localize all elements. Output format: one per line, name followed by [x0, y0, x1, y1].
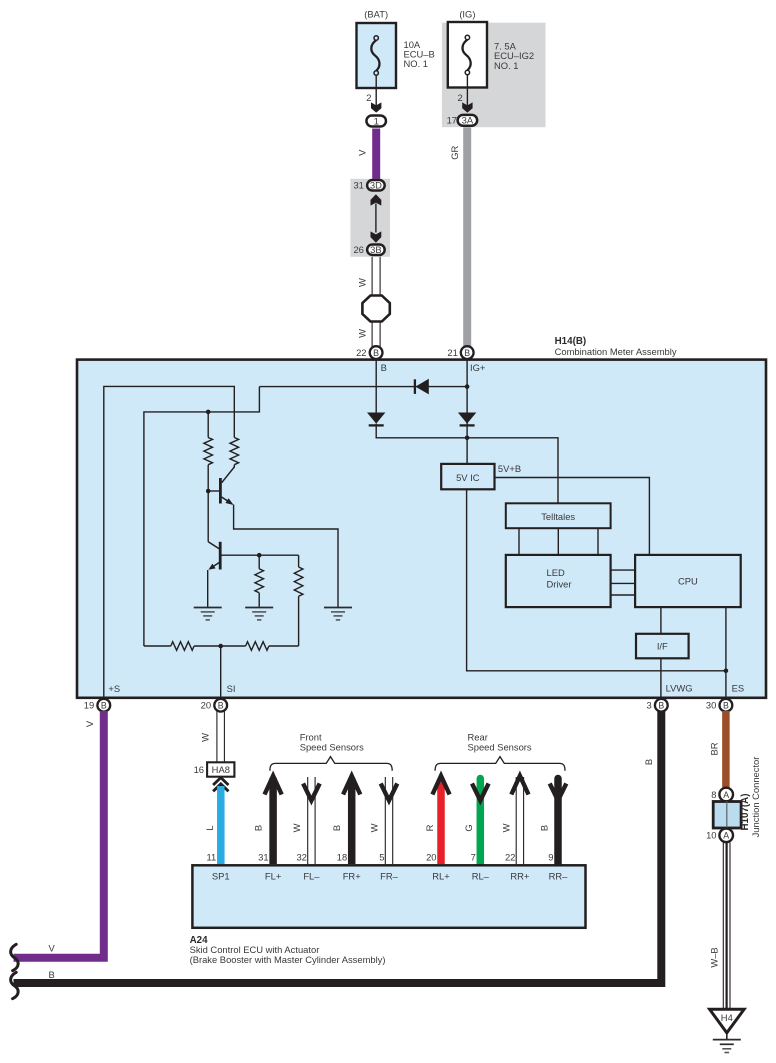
wire fuse ECU-B to connector 1	[375, 75, 377, 112]
svg-text:11: 11	[206, 851, 216, 862]
I/F box	[636, 634, 689, 659]
junction node ES	[724, 669, 729, 674]
gray panel behind IG fuse	[442, 23, 546, 128]
pin 16 label	[194, 764, 204, 775]
wire 5V+B to CPU	[495, 478, 650, 555]
wire L light blue (to SP1)	[217, 786, 225, 864]
svg-text:26: 26	[353, 244, 363, 255]
svg-text:RL–: RL–	[472, 871, 490, 882]
svg-text:A: A	[723, 790, 729, 800]
svg-text:31: 31	[258, 851, 268, 862]
wire SI column	[220, 646, 222, 697]
svg-text:1: 1	[374, 115, 379, 126]
node +S label	[108, 683, 120, 694]
skid control ECU box A24	[192, 865, 585, 928]
svg-text:Telltales: Telltales	[541, 511, 575, 522]
svg-text:8: 8	[711, 789, 716, 800]
wires LED Driver to CPU	[611, 570, 636, 595]
svg-text:5: 5	[379, 851, 384, 862]
resistor R3	[255, 555, 264, 607]
svg-text:FL–: FL–	[303, 871, 320, 882]
wire W FL- with down arrow	[303, 777, 320, 864]
label BR	[708, 742, 719, 755]
svg-text:L: L	[204, 825, 215, 830]
label B (horizontal run)	[48, 969, 54, 980]
svg-text:FR+: FR+	[343, 871, 361, 882]
svg-text:16: 16	[194, 764, 204, 775]
connector 3A oval	[458, 115, 478, 126]
svg-text:V: V	[84, 720, 95, 727]
rear speed sensors label	[468, 731, 532, 752]
CPU box	[635, 555, 741, 607]
svg-text:7: 7	[471, 851, 476, 862]
arrow down to 3B	[371, 231, 382, 242]
wire 5V IC to ES junction	[467, 489, 726, 670]
svg-text:NO. 1: NO. 1	[404, 58, 429, 69]
resistor R5 (horizontal)	[144, 642, 246, 651]
svg-text:17: 17	[447, 115, 457, 126]
svg-text:H4: H4	[721, 1012, 733, 1023]
wire B black to left edge	[14, 711, 662, 983]
wire B FL+ with up arrow	[265, 776, 282, 864]
svg-text:SI: SI	[227, 683, 236, 694]
svg-text:B: B	[658, 701, 664, 711]
svg-text:Speed Sensors: Speed Sensors	[468, 742, 532, 753]
svg-text:B: B	[48, 969, 54, 980]
svg-text:W: W	[369, 823, 380, 832]
svg-text:18: 18	[337, 851, 347, 862]
wire Q1 base to Q2 collector	[207, 491, 209, 542]
wire B column	[375, 359, 377, 414]
pin 3 B	[655, 699, 668, 712]
resistor R1	[204, 412, 213, 491]
wire B RR- with down arrow	[550, 779, 567, 865]
ground H4 triangle	[710, 1009, 745, 1033]
wire W white (noise filter to pin 22)	[372, 322, 380, 347]
pin 30 label	[706, 700, 716, 711]
node IG+ label	[470, 362, 486, 373]
continuation squiggle (B wire)	[11, 972, 19, 998]
wire fuse ECU-IG2 to connector 3A	[466, 75, 468, 112]
ground G1	[194, 608, 222, 620]
label W-B	[708, 947, 719, 967]
wire CPU to I/F	[660, 607, 662, 634]
A24 title	[190, 935, 386, 965]
svg-text:(BAT): (BAT)	[364, 8, 388, 19]
fuse ECU-B NO.1 box	[357, 23, 397, 88]
svg-text:B: B	[373, 348, 379, 358]
svg-text:FR–: FR–	[380, 871, 398, 882]
svg-text:30: 30	[706, 700, 716, 711]
svg-text:IG+: IG+	[470, 362, 486, 373]
front speed sensors label	[300, 731, 364, 752]
ground G2	[245, 608, 273, 620]
node LVWG label	[666, 683, 693, 694]
wire feed line to cross link	[144, 387, 260, 646]
arrow into connector 3A	[462, 102, 472, 112]
resistor R6 (horizontal)	[246, 642, 299, 651]
wire +S to resistor R2	[104, 386, 235, 697]
pin 21 label	[447, 347, 457, 358]
svg-text:B: B	[101, 701, 107, 711]
LED Driver box	[506, 555, 611, 607]
svg-text:20: 20	[201, 700, 211, 711]
diode D1 (B column, down)	[367, 413, 385, 426]
label V (horizontal run)	[48, 943, 55, 954]
svg-text:3: 3	[646, 700, 651, 711]
label (IG)	[459, 8, 475, 19]
svg-text:Combination Meter Assembly: Combination Meter Assembly	[555, 346, 677, 357]
pin 17 label	[447, 115, 457, 126]
resistor R4	[294, 555, 303, 646]
svg-text:RL+: RL+	[432, 871, 450, 882]
A24 pin name labels	[212, 871, 568, 882]
pin 8 label	[711, 789, 716, 800]
svg-text:ES: ES	[732, 683, 745, 694]
label B (vertical run)	[643, 759, 654, 765]
shield chevrons below HA8	[213, 778, 228, 792]
sensor wire labels	[252, 823, 549, 832]
svg-text:RR+: RR+	[510, 871, 530, 882]
pin 2 label (BAT fuse)	[366, 92, 371, 103]
label W	[200, 733, 211, 742]
pin 10 A	[719, 829, 733, 843]
svg-text:20: 20	[426, 851, 436, 862]
svg-text:B: B	[381, 362, 387, 373]
svg-text:W: W	[200, 733, 211, 742]
svg-text:BR: BR	[708, 742, 719, 755]
pin 26 label	[353, 244, 363, 255]
wire W-B (to ground H4)	[723, 843, 730, 1010]
A24 pin number labels	[206, 851, 553, 862]
svg-text:2: 2	[457, 92, 462, 103]
wire junction to Telltales	[467, 438, 558, 503]
connector HA8 box	[207, 762, 234, 776]
svg-text:NO. 1: NO. 1	[494, 60, 519, 71]
rear speed sensors bracket	[435, 757, 565, 771]
svg-text:CPU: CPU	[678, 575, 698, 586]
fuse ECU-B value label	[404, 39, 435, 69]
svg-text:FL+: FL+	[265, 871, 282, 882]
pin 31 label	[353, 180, 363, 191]
diode D3 (left pointing)	[415, 379, 429, 395]
svg-text:W: W	[500, 823, 511, 832]
Telltales box	[506, 503, 611, 528]
svg-text:B: B	[252, 825, 263, 831]
svg-text:GR: GR	[449, 145, 460, 159]
label 5V+B	[498, 463, 521, 474]
wire cross link B to IG+	[259, 386, 467, 388]
svg-text:W: W	[291, 823, 302, 832]
wire W RR+ with up arrow	[511, 776, 528, 864]
diode D2 (IG+ column, down)	[458, 413, 476, 426]
svg-text:V: V	[48, 943, 55, 954]
label GR	[449, 145, 460, 159]
svg-text:19: 19	[84, 700, 94, 711]
5V IC box	[441, 464, 494, 489]
label W	[357, 278, 368, 287]
wire Q2 emitter to ground G1	[207, 570, 209, 608]
noise filter octagon	[362, 296, 389, 322]
fuse ECU-IG2 NO.1 box	[448, 22, 487, 88]
wire BR brown	[722, 711, 730, 789]
wire D1 to junction	[376, 424, 467, 438]
svg-text:(IG): (IG)	[459, 8, 475, 19]
node SI label	[227, 683, 236, 694]
svg-text:(Brake Booster with Master Cyl: (Brake Booster with Master Cylinder Asse…	[190, 954, 386, 965]
svg-text:Driver: Driver	[547, 579, 572, 590]
svg-text:W: W	[357, 329, 368, 338]
gray panel behind 3D/3B connector	[350, 179, 390, 257]
svg-text:I/F: I/F	[657, 640, 668, 651]
svg-text:B: B	[643, 759, 654, 765]
pin 20 B	[214, 699, 227, 712]
wire R RL+ with up arrow	[432, 776, 449, 864]
svg-text:21: 21	[447, 347, 457, 358]
wires Telltales to LED Driver	[519, 528, 598, 555]
pin 10 label	[706, 830, 716, 841]
fuse ECU-IG2 value label	[494, 40, 534, 70]
H14(B) title	[555, 336, 677, 357]
wire IG+ column	[466, 359, 468, 465]
label W	[357, 329, 368, 338]
connector 3D oval	[367, 180, 385, 191]
label (BAT)	[364, 8, 388, 19]
connector 1 oval	[366, 115, 386, 126]
svg-text:HA8: HA8	[212, 764, 230, 775]
svg-text:5V+B: 5V+B	[498, 463, 521, 474]
junction node SI	[218, 644, 223, 649]
wire B FR+ with up arrow	[343, 776, 360, 864]
transistor Q2	[208, 542, 298, 570]
pin 19 label	[84, 700, 94, 711]
ground H4 symbol	[713, 1033, 741, 1053]
svg-text:B: B	[464, 348, 470, 358]
svg-text:22: 22	[356, 347, 366, 358]
label V (vertical run)	[84, 720, 95, 727]
wire Q1 emitter to ground G3	[234, 505, 338, 608]
node ES label	[732, 683, 745, 694]
pin 22 B	[370, 346, 383, 359]
connector 3B oval	[367, 244, 385, 255]
svg-text:V: V	[357, 149, 368, 156]
svg-text:3A: 3A	[462, 115, 474, 126]
wire W white (3B to noise filter)	[372, 257, 380, 296]
pin 20 label	[201, 700, 211, 711]
svg-text:31: 31	[353, 180, 363, 191]
wire CPU to ES pin	[725, 607, 727, 697]
wire W FR- with down arrow	[381, 777, 398, 864]
svg-text:22: 22	[505, 851, 515, 862]
svg-text:10: 10	[706, 830, 716, 841]
svg-text:G: G	[463, 824, 474, 831]
svg-text:2: 2	[366, 92, 371, 103]
svg-text:W: W	[357, 278, 368, 287]
svg-text:B: B	[218, 701, 224, 711]
pin 19 B	[97, 699, 110, 712]
ground G3	[324, 608, 352, 620]
wire V violet (fuse to 3D)	[372, 129, 380, 180]
junction connector H107 box	[713, 802, 741, 829]
pin 2 label (IG fuse)	[457, 92, 462, 103]
svg-text:RR–: RR–	[549, 871, 569, 882]
junction node diodes output	[465, 436, 470, 441]
svg-text:Junction Connector: Junction Connector	[750, 757, 761, 838]
svg-text:32: 32	[296, 851, 306, 862]
svg-text:LVWG: LVWG	[666, 683, 693, 694]
wire I/F to LVWG pin	[660, 658, 662, 697]
continuation squiggle (V wire)	[11, 944, 19, 970]
resistor R2	[230, 438, 239, 465]
svg-text:Speed Sensors: Speed Sensors	[300, 742, 364, 753]
svg-text:A: A	[723, 831, 729, 841]
svg-text:+S: +S	[108, 683, 120, 694]
front speed sensors bracket	[270, 757, 392, 771]
junction node IG+/diode	[465, 384, 470, 389]
svg-text:B: B	[539, 825, 550, 831]
svg-text:R: R	[424, 824, 435, 831]
arrow into connector 1	[371, 102, 381, 112]
svg-text:5V IC: 5V IC	[456, 472, 480, 483]
svg-text:SP1: SP1	[212, 871, 230, 882]
label L	[204, 825, 215, 830]
H107(A) title	[740, 757, 761, 838]
combination meter assembly box	[77, 360, 766, 698]
svg-text:9: 9	[548, 851, 553, 862]
svg-text:W–B: W–B	[708, 947, 719, 967]
pin 21 B	[461, 346, 474, 359]
wire between 3D and 3B	[375, 204, 377, 233]
junction node Q1 base	[206, 489, 211, 494]
wire GR gray	[463, 127, 471, 353]
junction node R1 top	[206, 410, 211, 415]
junction node R3 top	[257, 553, 262, 558]
pin 30 B	[720, 699, 733, 712]
pin 3 label	[646, 700, 651, 711]
pin 22 label	[356, 347, 366, 358]
svg-text:3B: 3B	[370, 244, 381, 255]
node B label	[381, 362, 387, 373]
wire W (pin 20 to HA8)	[217, 711, 225, 763]
wire G RL- with down arrow	[472, 779, 489, 865]
arrow up to 3D	[371, 194, 382, 205]
wire V violet to left edge	[14, 711, 104, 958]
label V	[357, 149, 368, 156]
pin 8 A	[719, 788, 733, 802]
svg-text:3D: 3D	[370, 180, 382, 191]
svg-text:B: B	[331, 825, 342, 831]
transistor Q1	[208, 465, 234, 505]
svg-text:LED: LED	[547, 567, 565, 578]
svg-text:B: B	[723, 701, 729, 711]
